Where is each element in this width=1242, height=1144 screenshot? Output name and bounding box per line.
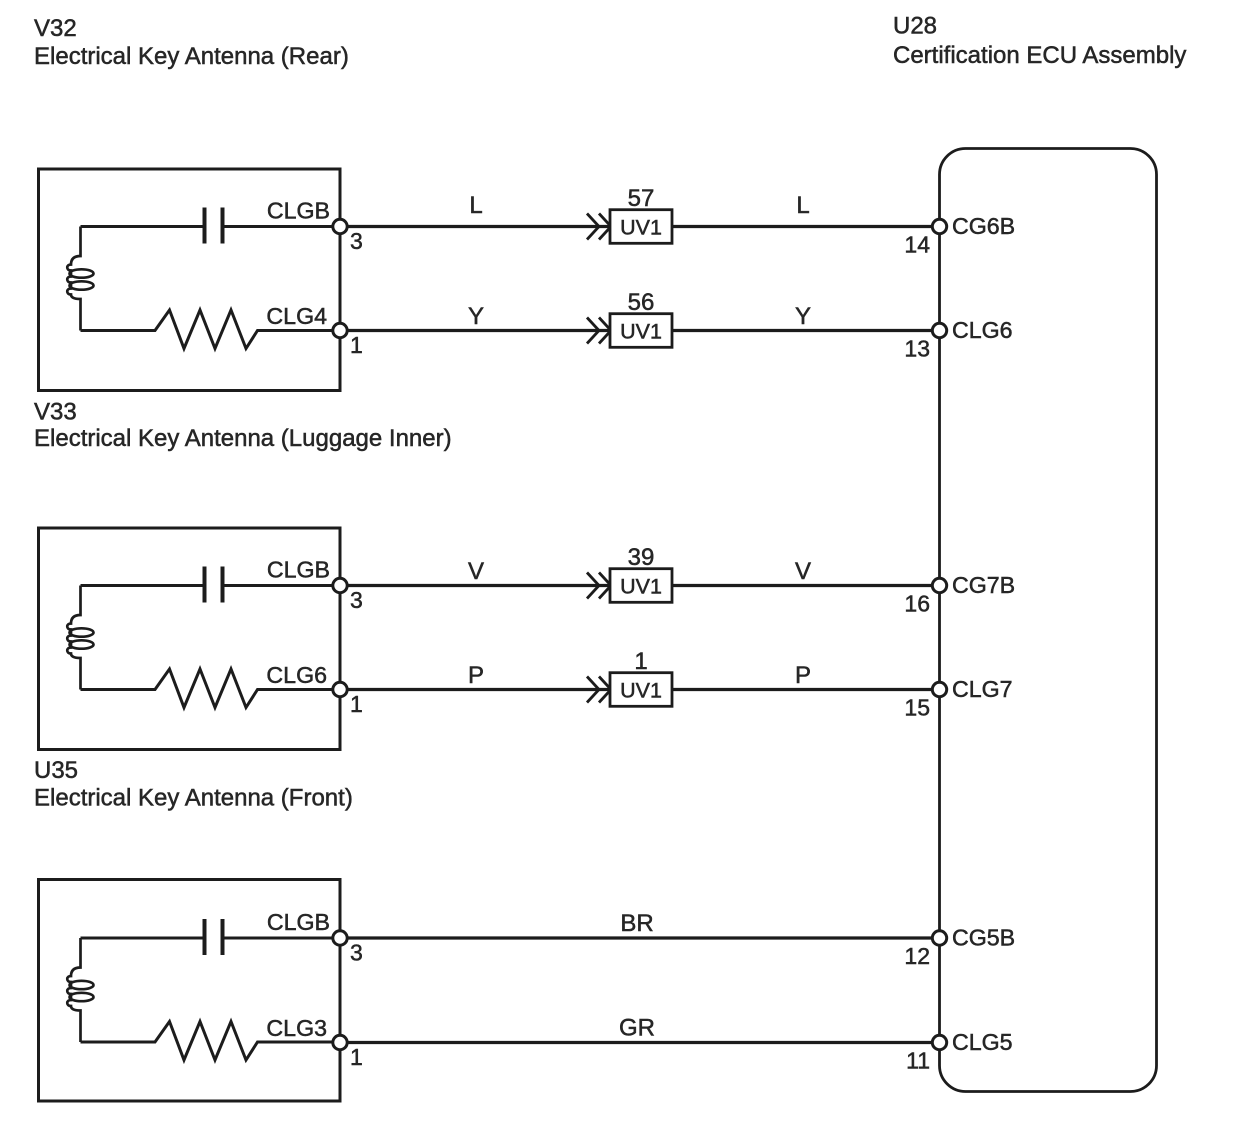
- svg-text:CG6B: CG6B: [952, 213, 1015, 239]
- svg-text:15: 15: [904, 695, 930, 721]
- svg-text:39: 39: [628, 544, 655, 571]
- svg-text:UV1: UV1: [620, 216, 662, 240]
- svg-text:1: 1: [634, 648, 647, 675]
- svg-text:CLGB: CLGB: [267, 198, 330, 224]
- svg-text:BR: BR: [620, 910, 653, 937]
- svg-text:13: 13: [904, 336, 930, 362]
- svg-text:12: 12: [904, 943, 930, 969]
- svg-text:V32: V32: [34, 15, 77, 42]
- svg-text:UV1: UV1: [620, 679, 662, 703]
- svg-text:1: 1: [350, 691, 363, 717]
- svg-text:1: 1: [350, 1044, 363, 1070]
- svg-text:CLGB: CLGB: [267, 909, 330, 935]
- svg-text:Electrical Key Antenna (Rear): Electrical Key Antenna (Rear): [34, 43, 349, 70]
- svg-text:CG7B: CG7B: [952, 572, 1015, 598]
- svg-text:L: L: [469, 192, 482, 219]
- svg-text:U35: U35: [34, 757, 78, 784]
- svg-text:Electrical Key Antenna (Front): Electrical Key Antenna (Front): [34, 785, 353, 812]
- svg-text:CLG5: CLG5: [952, 1029, 1013, 1055]
- svg-text:UV1: UV1: [620, 320, 662, 344]
- svg-text:Certification ECU Assembly: Certification ECU Assembly: [893, 42, 1186, 69]
- svg-text:CG5B: CG5B: [952, 925, 1015, 951]
- svg-text:3: 3: [350, 228, 363, 254]
- svg-text:V: V: [468, 558, 484, 585]
- svg-text:CLG6: CLG6: [266, 662, 327, 688]
- svg-text:11: 11: [906, 1048, 930, 1074]
- svg-text:P: P: [468, 662, 484, 689]
- svg-text:P: P: [795, 662, 811, 689]
- svg-text:UV1: UV1: [620, 575, 662, 599]
- svg-text:1: 1: [350, 332, 363, 358]
- svg-text:CLG3: CLG3: [266, 1015, 327, 1041]
- svg-text:CLG6: CLG6: [952, 317, 1013, 343]
- svg-text:CLG7: CLG7: [952, 676, 1013, 702]
- svg-text:CLGB: CLGB: [267, 557, 330, 583]
- svg-text:Y: Y: [795, 303, 811, 330]
- svg-text:V: V: [795, 558, 811, 585]
- svg-text:Y: Y: [468, 303, 484, 330]
- svg-text:3: 3: [350, 940, 363, 966]
- svg-text:16: 16: [904, 591, 930, 617]
- svg-text:V33: V33: [34, 399, 77, 426]
- svg-text:14: 14: [904, 232, 930, 258]
- svg-text:GR: GR: [619, 1015, 655, 1042]
- svg-text:3: 3: [350, 587, 363, 613]
- svg-text:56: 56: [628, 289, 655, 316]
- svg-text:57: 57: [628, 185, 655, 212]
- svg-text:Electrical Key Antenna (Luggag: Electrical Key Antenna (Luggage Inner): [34, 425, 452, 452]
- svg-text:L: L: [796, 192, 809, 219]
- svg-text:CLG4: CLG4: [266, 303, 327, 329]
- svg-text:U28: U28: [893, 13, 937, 40]
